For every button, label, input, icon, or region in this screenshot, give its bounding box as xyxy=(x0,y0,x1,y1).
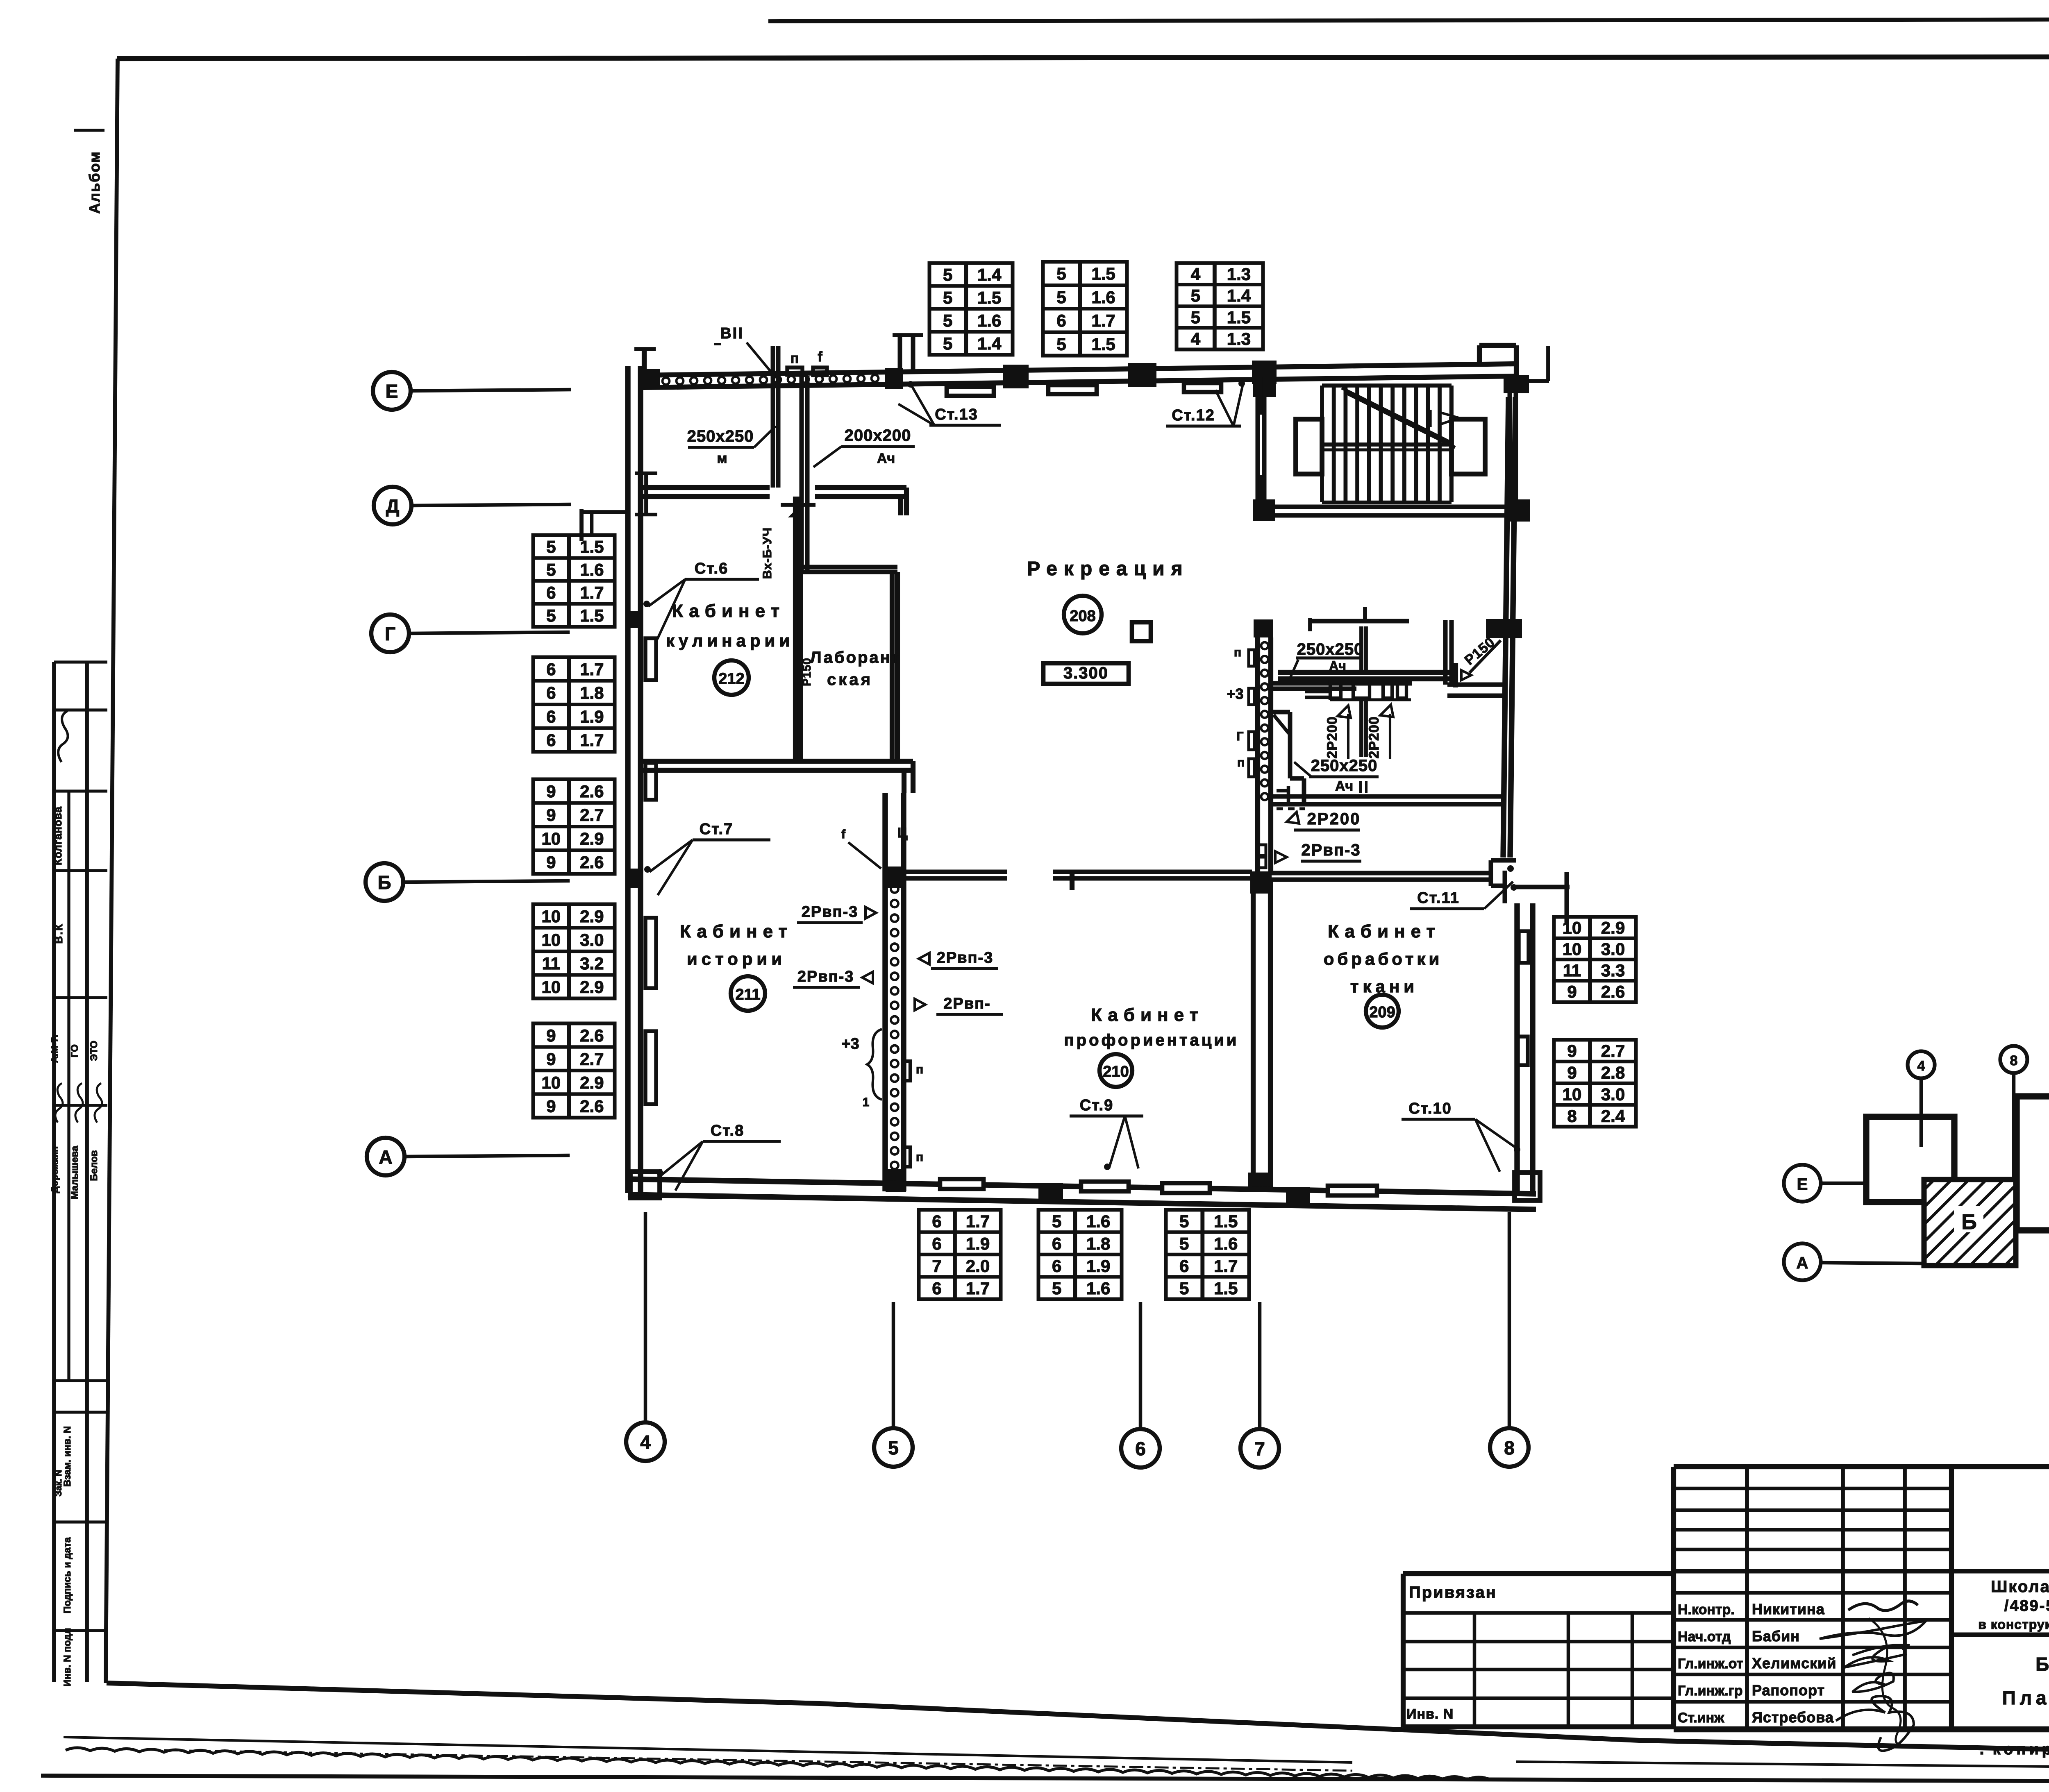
project name text xyxy=(1978,1578,2049,1632)
room 209 label kabinet obrabotki tkani xyxy=(1324,921,1443,996)
duct area bottom wall xyxy=(1271,796,1504,809)
title block left section texts xyxy=(1406,1583,1497,1722)
top wall windows xyxy=(947,387,994,396)
svg-text:Белов: Белов xyxy=(89,1150,100,1181)
svg-text:1.8: 1.8 xyxy=(1086,1234,1110,1253)
stair treads xyxy=(1322,386,1452,502)
svg-text:6: 6 xyxy=(546,583,556,602)
svg-text:ВII: ВII xyxy=(720,325,744,342)
svg-text:11: 11 xyxy=(542,954,560,973)
svg-text:Ястребова: Ястребова xyxy=(1752,1709,1834,1726)
table left L1 xyxy=(533,535,615,627)
top wall corner blocks xyxy=(641,369,660,388)
stairwell left wall xyxy=(1258,377,1264,499)
label St.12 with leaders xyxy=(1166,380,1245,426)
table bottom B1 xyxy=(919,1210,1001,1299)
axis circle D xyxy=(374,487,571,524)
svg-text:ГО: ГО xyxy=(69,1044,80,1057)
svg-text:5: 5 xyxy=(888,1437,899,1459)
signature scribbles xyxy=(1820,1601,1926,1751)
svg-text:10: 10 xyxy=(541,829,561,848)
svg-text:Б: Б xyxy=(1961,1210,1976,1234)
svg-text:2Р200: 2Р200 xyxy=(1366,716,1382,758)
svg-text:5: 5 xyxy=(1191,308,1200,327)
bottom scan artifact lines xyxy=(41,1737,2049,1782)
svg-text:9: 9 xyxy=(546,1096,556,1116)
svg-text:6: 6 xyxy=(546,683,556,703)
svg-text:Е: Е xyxy=(386,381,398,402)
svg-text:250х250: 250х250 xyxy=(687,427,754,445)
svg-text:2.7: 2.7 xyxy=(580,1049,604,1068)
stair direction diagonal with arrow xyxy=(1342,388,1459,447)
svg-text:2.9: 2.9 xyxy=(1601,918,1625,937)
svg-text:обработки: обработки xyxy=(1324,949,1443,969)
svg-text:Ач: Ач xyxy=(1329,658,1346,673)
svg-text:А: А xyxy=(379,1146,392,1168)
table bottom B2 xyxy=(1038,1210,1122,1299)
svg-text:10: 10 xyxy=(541,907,561,926)
svg-text:9: 9 xyxy=(1567,1041,1577,1061)
svg-text:1.7: 1.7 xyxy=(580,583,604,602)
svg-text:Ач: Ач xyxy=(877,451,895,466)
table top T2 xyxy=(1043,262,1127,356)
svg-text:200х200: 200х200 xyxy=(845,426,911,445)
right side walls of recreation niche xyxy=(1445,620,1503,696)
svg-text:2Рвп-3: 2Рвп-3 xyxy=(802,903,859,921)
svg-text:7: 7 xyxy=(932,1256,941,1275)
room number circle 208 xyxy=(1064,596,1102,633)
svg-text:Г: Г xyxy=(1236,730,1243,743)
svg-text:2.9: 2.9 xyxy=(580,907,604,926)
svg-text:п: п xyxy=(1237,756,1245,769)
svg-text:10: 10 xyxy=(541,977,561,996)
room number circle 210 xyxy=(1099,1054,1132,1087)
svg-text:4: 4 xyxy=(640,1431,651,1453)
svg-text:5: 5 xyxy=(943,311,952,330)
svg-text:План 2 этажа: План 2 этажа xyxy=(2002,1687,2049,1708)
svg-text:1.5: 1.5 xyxy=(1091,334,1115,354)
svg-text:Ст.10: Ст.10 xyxy=(1408,1100,1452,1117)
right outer wall upper segment xyxy=(1503,397,1515,857)
laborant room label xyxy=(810,649,902,689)
stair column top-right xyxy=(1504,375,1529,393)
svg-text:6: 6 xyxy=(1179,1256,1189,1275)
svg-text:3.2: 3.2 xyxy=(580,954,604,973)
svg-text:1.6: 1.6 xyxy=(1086,1211,1110,1231)
svg-text:.: . xyxy=(1979,1740,1984,1758)
stair column bottom-right xyxy=(1508,499,1530,522)
svg-text:5: 5 xyxy=(943,334,952,353)
svg-text:6: 6 xyxy=(546,707,556,726)
svg-text:1.6: 1.6 xyxy=(1086,1279,1110,1298)
svg-text:1.4: 1.4 xyxy=(1227,286,1251,305)
svg-text:2.7: 2.7 xyxy=(1601,1041,1625,1061)
svg-text:9: 9 xyxy=(546,853,556,872)
stair column top-left xyxy=(1253,375,1276,397)
svg-text:Ст.инж: Ст.инж xyxy=(1678,1710,1724,1726)
top outer wall with duct circles xyxy=(641,364,1516,388)
svg-text:1.3: 1.3 xyxy=(1227,329,1251,349)
svg-text:Вх-Б-УЧ: Вх-Б-УЧ xyxy=(761,527,774,579)
svg-text:208: 208 xyxy=(1070,608,1095,625)
axis circle 4 xyxy=(626,1212,665,1461)
kopiroval line xyxy=(1979,1736,2049,1758)
svg-text:В.К: В.К xyxy=(52,923,65,944)
svg-text:2.9: 2.9 xyxy=(580,829,604,848)
svg-text:Никитина: Никитина xyxy=(1752,1601,1825,1617)
svg-text:п: п xyxy=(791,351,799,366)
label 2P200 bottom xyxy=(1287,810,1361,830)
svg-text:2Р200: 2Р200 xyxy=(1307,810,1361,828)
bottom outer wall xyxy=(628,1179,1536,1209)
top-right parapet notch xyxy=(1479,345,1549,381)
svg-text:6: 6 xyxy=(932,1279,941,1298)
svg-text:п: п xyxy=(916,1150,923,1164)
stair landing side boxes xyxy=(1296,419,1322,474)
svg-text:6: 6 xyxy=(1056,311,1066,330)
title block outer and grid lines xyxy=(1403,1467,2049,1729)
svg-text:Альбом: Альбом xyxy=(86,151,103,213)
axis circle 7 xyxy=(1240,1302,1279,1468)
svg-text:9: 9 xyxy=(546,1026,556,1045)
svg-text:Взам. инв. N: Взам. инв. N xyxy=(62,1426,73,1487)
svg-text:1.7: 1.7 xyxy=(1091,311,1115,330)
label P150 rotated xyxy=(1462,634,1501,673)
svg-text:1.5: 1.5 xyxy=(1091,264,1115,284)
svg-text:п: п xyxy=(916,1063,923,1076)
svg-text:1.4: 1.4 xyxy=(977,265,1002,284)
svg-text:Зак. N: Зак. N xyxy=(53,1470,64,1496)
svg-text:5: 5 xyxy=(546,606,556,625)
room 209 top wall xyxy=(1270,873,1492,880)
right outer wall lower segment xyxy=(1517,903,1533,1194)
svg-text:2Рвп-3: 2Рвп-3 xyxy=(797,968,854,985)
shaft side marks xyxy=(1227,646,1254,777)
svg-text:6: 6 xyxy=(1052,1256,1061,1275)
vertical labels 2P200 xyxy=(1324,705,1393,759)
svg-text:6: 6 xyxy=(932,1234,941,1253)
svg-text:10: 10 xyxy=(541,930,561,949)
left outer wall xyxy=(628,366,641,1193)
lower horizontal duct wall with openings xyxy=(1271,682,1412,700)
svg-text:Ц: Ц xyxy=(897,825,908,841)
svg-text:Кабинет: Кабинет xyxy=(1328,921,1441,941)
table right R2 xyxy=(1554,1040,1636,1127)
bottom wall windows xyxy=(940,1179,984,1189)
duct wall between rooms 211 and 210 xyxy=(885,793,904,1191)
wall between rooms 210 and 209 xyxy=(1253,878,1270,1191)
svg-text:Хелимский: Хелимский xyxy=(1752,1655,1837,1672)
svg-text:6: 6 xyxy=(546,660,556,679)
St11 corner jog xyxy=(1491,860,1570,923)
key plan axis circle 4 xyxy=(1908,1051,1935,1147)
duct wall side marks xyxy=(841,828,923,1167)
svg-text:5: 5 xyxy=(1179,1279,1189,1298)
svg-text:2.6: 2.6 xyxy=(580,1096,604,1116)
left wall window bars xyxy=(645,638,656,680)
duct shaft left of 210/209 wall xyxy=(1258,637,1271,871)
label St.7 with leaders xyxy=(644,821,770,895)
svg-text:211: 211 xyxy=(735,986,760,1003)
svg-text:Ст.6: Ст.6 xyxy=(695,560,728,577)
level mark 3.300 box xyxy=(1043,663,1129,684)
svg-text:2.9: 2.9 xyxy=(580,977,604,996)
svg-text:2Рвп-3: 2Рвп-3 xyxy=(937,949,994,966)
svg-text:А: А xyxy=(1797,1254,1808,1272)
svg-text:2.0: 2.0 xyxy=(966,1256,990,1275)
svg-text:5: 5 xyxy=(1056,334,1066,354)
svg-text:8: 8 xyxy=(1567,1107,1577,1126)
room 212 label kabinet kulinarii xyxy=(666,601,794,650)
svg-text:1.5: 1.5 xyxy=(977,288,1001,307)
svg-text:+3: +3 xyxy=(1227,685,1243,702)
stair column bottom-left xyxy=(1253,499,1275,521)
svg-text:5: 5 xyxy=(1191,286,1200,305)
svg-text:1.9: 1.9 xyxy=(1086,1256,1110,1275)
svg-text:2.7: 2.7 xyxy=(580,805,604,825)
svg-text:Инв. N подл: Инв. N подл xyxy=(62,1628,73,1686)
svg-text:Н.контр.: Н.контр. xyxy=(1678,1602,1735,1617)
svg-text:2.6: 2.6 xyxy=(580,782,604,801)
axis circle E xyxy=(373,372,571,410)
svg-text:1.5: 1.5 xyxy=(1227,308,1251,327)
svg-text:2Р200: 2Р200 xyxy=(1324,716,1340,758)
svg-text:Е: Е xyxy=(1797,1175,1808,1193)
title block staff rows texts xyxy=(1678,1601,1837,1726)
svg-text:2.6: 2.6 xyxy=(1601,982,1625,1001)
svg-text:Бабин: Бабин xyxy=(1752,1628,1800,1645)
svg-text:1.9: 1.9 xyxy=(580,707,604,726)
label St.8 with leaders xyxy=(656,1122,781,1191)
svg-text:Ст.9: Ст.9 xyxy=(1080,1097,1113,1114)
svg-text:3.3: 3.3 xyxy=(1601,961,1625,980)
svg-text:10: 10 xyxy=(541,1073,561,1092)
key plan left block square xyxy=(1866,1117,1954,1202)
svg-text:9: 9 xyxy=(1567,982,1577,1001)
key plan axis circle A xyxy=(1784,1243,1924,1280)
svg-text:Лаборант: Лаборант xyxy=(810,649,902,667)
axis circle B xyxy=(366,863,570,901)
label St.10 with leaders xyxy=(1402,1100,1520,1172)
upper horizontal duct wall xyxy=(1278,663,1471,687)
svg-text:6: 6 xyxy=(1052,1234,1061,1253)
left margin stamp table xyxy=(54,662,107,1682)
svg-text:210: 210 xyxy=(1103,1063,1129,1080)
stairwell bottom wall xyxy=(1264,507,1508,515)
svg-text:Колганова: Колганова xyxy=(52,806,64,865)
svg-text:Рапопорт: Рапопорт xyxy=(1752,1682,1825,1699)
svg-text:Ст.13: Ст.13 xyxy=(935,406,978,423)
svg-text:1.9: 1.9 xyxy=(966,1234,990,1253)
svg-text:2.6: 2.6 xyxy=(580,853,604,872)
svg-text:Привязан: Привязан xyxy=(1409,1583,1497,1601)
bottom wall corner block left xyxy=(630,1172,660,1198)
svg-text:11: 11 xyxy=(1563,961,1581,980)
small square marker in recreation xyxy=(1132,622,1151,641)
label St.13 with leaders xyxy=(898,381,1001,425)
svg-text:9: 9 xyxy=(546,1049,556,1068)
svg-text:250х250: 250х250 xyxy=(1311,757,1378,775)
svg-text:Ст.11: Ст.11 xyxy=(1417,889,1459,907)
svg-text:копировал: копировал xyxy=(1993,1741,2049,1758)
label 250x250/Ach upper xyxy=(1290,640,1363,678)
duct riser above wall at grid column xyxy=(893,335,923,370)
svg-text:3.0: 3.0 xyxy=(1601,1085,1625,1104)
svg-text:Ст.12: Ст.12 xyxy=(1172,407,1215,424)
label St.11 with leaders xyxy=(1410,865,1517,909)
svg-text:Г: Г xyxy=(385,623,395,644)
axis circle A xyxy=(367,1138,570,1175)
svg-text:кулинарии: кулинарии xyxy=(666,631,794,650)
svg-text:1.7: 1.7 xyxy=(580,730,604,750)
svg-text:5: 5 xyxy=(1179,1211,1189,1231)
table top T1 xyxy=(929,263,1013,355)
svg-text:2.4: 2.4 xyxy=(1601,1107,1625,1126)
room number circle 212 xyxy=(714,660,749,695)
svg-text:4: 4 xyxy=(1191,264,1201,284)
entrance corridor wall xyxy=(641,488,906,515)
svg-text:ская: ская xyxy=(827,671,873,689)
svg-text:6: 6 xyxy=(932,1211,941,1231)
svg-text:1.7: 1.7 xyxy=(966,1279,990,1298)
exterior I-stub on left wall xyxy=(635,473,657,515)
svg-text:Кабинет: Кабинет xyxy=(1091,1005,1204,1025)
svg-text:Ст.8: Ст.8 xyxy=(711,1122,744,1139)
svg-text:2Рвп-3: 2Рвп-3 xyxy=(1301,841,1361,859)
svg-text:А.М-7.: А.М-7. xyxy=(49,1035,60,1063)
room 211 label kabinet istorii xyxy=(680,921,793,969)
svg-text:5: 5 xyxy=(1052,1279,1061,1298)
laborant room walls xyxy=(795,497,897,761)
bottom wall pier blocks xyxy=(1038,1183,1063,1202)
svg-text:5: 5 xyxy=(943,288,952,307)
stamp rotated texts xyxy=(49,130,104,1687)
svg-text:истории: истории xyxy=(687,949,786,969)
room number circle 209 xyxy=(1366,995,1399,1028)
room 212 bottom wall xyxy=(641,761,913,793)
room 210 top wall xyxy=(904,872,1252,890)
svg-text:9: 9 xyxy=(1567,1063,1577,1082)
recreation room label xyxy=(1027,558,1189,580)
svg-text:9: 9 xyxy=(546,782,556,801)
label 2Pvp-3 with symbol xyxy=(1258,841,1361,868)
svg-text:1.3: 1.3 xyxy=(1227,264,1251,284)
labels 2Rvp-3 around duct wall xyxy=(793,825,1003,1014)
svg-text:5: 5 xyxy=(1179,1234,1189,1253)
svg-text:250х250: 250х250 xyxy=(1297,640,1364,658)
label P150 rotated at laborant duct xyxy=(800,658,813,686)
svg-text:7: 7 xyxy=(1254,1438,1265,1459)
svg-text:1.5: 1.5 xyxy=(580,606,604,625)
svg-text:1.6: 1.6 xyxy=(580,560,604,579)
svg-text:2.6: 2.6 xyxy=(580,1026,604,1045)
svg-text:1.6: 1.6 xyxy=(1214,1234,1238,1253)
svg-text:+3: +3 xyxy=(841,1035,859,1053)
svg-text:3.300: 3.300 xyxy=(1063,664,1109,682)
table top T3 xyxy=(1177,263,1263,349)
table left L5 xyxy=(533,1023,615,1118)
center duct drop lines xyxy=(1361,626,1366,757)
svg-text:5: 5 xyxy=(1056,264,1066,284)
svg-text:Гл.инж.гр: Гл.инж.гр xyxy=(1678,1683,1743,1699)
svg-text:10: 10 xyxy=(1563,939,1582,959)
svg-text:в конструкциях серии 1.020-1/8: в конструкциях серии 1.020-1/83 xyxy=(1978,1617,2049,1632)
svg-text:4: 4 xyxy=(1917,1058,1925,1074)
key plan axis circle E xyxy=(1784,1165,1867,1202)
table right R1 xyxy=(1554,917,1636,1002)
entrance arrow Vh-B-UCh xyxy=(761,505,816,579)
external landing stub left of wall xyxy=(582,509,628,541)
key plan axis circle 8 xyxy=(2000,1046,2027,1180)
label 250x250/M duct xyxy=(687,426,776,466)
left corner flag tick xyxy=(634,349,656,375)
svg-text:1.5: 1.5 xyxy=(1214,1279,1238,1298)
label St.9 with leaders xyxy=(1070,1097,1143,1170)
svg-text:Ст.7: Ст.7 xyxy=(700,821,733,838)
table left L4 xyxy=(533,904,615,998)
svg-text:Б: Б xyxy=(377,872,391,893)
key plan hatched block B xyxy=(1924,1180,2016,1266)
axis circle 6 xyxy=(1121,1302,1160,1468)
svg-text:5: 5 xyxy=(1052,1211,1061,1231)
svg-text:Малышева: Малышева xyxy=(69,1146,80,1199)
svg-text:1.4: 1.4 xyxy=(977,334,1002,353)
svg-text:1.7: 1.7 xyxy=(966,1211,990,1231)
room number circle 211 xyxy=(731,976,765,1011)
sheet name blok B plan 2 etazha xyxy=(2002,1654,2049,1708)
svg-text:п: п xyxy=(1234,646,1241,659)
table left L2 xyxy=(533,657,615,752)
entrance duct risers xyxy=(773,346,827,570)
label St.6 with leaders xyxy=(643,560,759,639)
svg-text:1: 1 xyxy=(863,1096,870,1109)
svg-text:f: f xyxy=(818,349,822,365)
axis circle G xyxy=(371,615,570,652)
svg-text:Подпись и дата: Подпись и дата xyxy=(62,1537,73,1613)
svg-text:1.6: 1.6 xyxy=(977,311,1001,330)
svg-text:212: 212 xyxy=(718,670,744,687)
svg-text:5: 5 xyxy=(943,265,952,284)
axis circle 5 xyxy=(874,1302,913,1467)
label 250x250/Ach lower xyxy=(1294,757,1379,794)
right wall window bars xyxy=(1519,931,1529,963)
axis circle 8 xyxy=(1490,1212,1529,1467)
svg-text:ЭТО: ЭТО xyxy=(89,1041,100,1061)
svg-text:Гл.инж.от: Гл.инж.от xyxy=(1678,1656,1743,1672)
svg-text:Ач: Ач xyxy=(1335,778,1353,794)
svg-text:8: 8 xyxy=(2010,1053,2018,1068)
svg-text:Блок Б.: Блок Б. xyxy=(2035,1654,2049,1675)
L-shaped duct in shaft corner xyxy=(1271,712,1304,805)
svg-text:8: 8 xyxy=(1504,1437,1515,1459)
svg-text:1.5: 1.5 xyxy=(1214,1211,1238,1231)
svg-text:Кабинет: Кабинет xyxy=(672,601,785,621)
svg-text:Кабинет: Кабинет xyxy=(680,921,793,941)
room 210 label kabinet proforientacii xyxy=(1064,1005,1239,1049)
svg-text:3.0: 3.0 xyxy=(580,930,604,949)
svg-text:2.8: 2.8 xyxy=(1601,1063,1625,1082)
svg-text:Рекреация: Рекреация xyxy=(1027,558,1189,580)
svg-text:4: 4 xyxy=(1191,329,1201,349)
table bottom B3 xyxy=(1166,1210,1249,1299)
svg-text:Дорожкин: Дорожкин xyxy=(49,1146,60,1193)
svg-text:10: 10 xyxy=(1563,1085,1582,1104)
svg-text:Инв. N: Инв. N xyxy=(1406,1706,1454,1722)
svg-text:5: 5 xyxy=(546,537,556,556)
svg-text:3.0: 3.0 xyxy=(1601,939,1625,959)
svg-text:Д: Д xyxy=(386,495,400,517)
svg-text:5: 5 xyxy=(546,560,556,579)
